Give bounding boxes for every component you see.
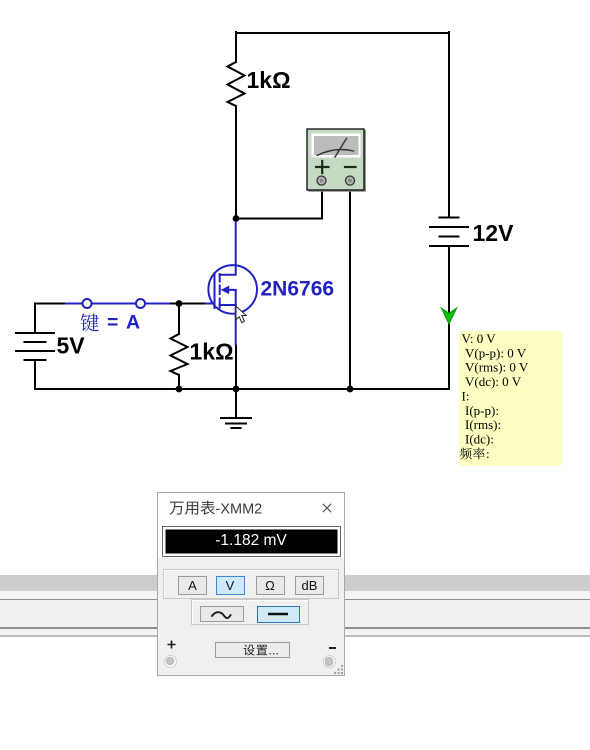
- svg-text:V(p-p): 0 V: V(p-p): 0 V: [465, 345, 527, 360]
- svg-text:V: 0 V: V: 0 V: [462, 331, 497, 346]
- − terminal label: [329, 647, 337, 649]
- svg-text::: :: [486, 446, 490, 461]
- close X: [322, 503, 332, 513]
- svg-text:5V: 5V: [57, 333, 86, 359]
- svg-text:-XMM2: -XMM2: [215, 502, 262, 518]
- resistor R2: [171, 334, 188, 375]
- probe tooltip: [459, 331, 562, 466]
- wire V1 + to switch: [35, 304, 66, 334]
- title bar: [158, 493, 344, 558]
- wire right rail: V2 bottom lead to bottom rail: [448, 246, 450, 389]
- node junction R2/bottom rail: [176, 386, 183, 393]
- svg-text:A: A: [126, 312, 140, 334]
- wire multimeter − terminal down to bottom rail: [349, 190, 351, 389]
- svg-text:12V: 12V: [473, 220, 515, 246]
- + terminal label: [167, 640, 176, 649]
- battery V1 5V: [16, 333, 54, 360]
- wire R2 bottom lead: [178, 375, 180, 389]
- wire switch to gate node to MOSFET gate pin: [171, 303, 206, 305]
- MOSFET Q1 2N6766 (selected blue): [206, 222, 257, 345]
- mode buttons groove: [163, 569, 339, 599]
- wire right rail: V2 top lead: [448, 32, 450, 218]
- wire drain rail upper (R1 leads): [235, 32, 237, 220]
- svg-text:2N6766: 2N6766: [261, 278, 335, 301]
- switch S1 (closed, blue selected): [66, 299, 171, 308]
- switch label 键 = A: [81, 312, 140, 334]
- wire source to bottom rail: [235, 345, 237, 389]
- resize grip: [333, 664, 344, 675]
- multimeter dialog window XMM2: [157, 492, 345, 676]
- wire bottom rail: [35, 388, 449, 390]
- wire top rail from R1 to V2: [236, 32, 449, 34]
- battery V2 12V: [430, 218, 468, 247]
- wire junction to multimeter + terminal: [236, 190, 322, 219]
- svg-text:V(dc): 0 V: V(dc): 0 V: [465, 374, 522, 389]
- svg-text:1kΩ: 1kΩ: [190, 339, 234, 365]
- svg-text:...: ...: [269, 644, 279, 658]
- label 2N6766 (Q1): [261, 278, 335, 301]
- multimeter XMM2 icon: [307, 129, 365, 191]
- value label 1kΩ (R1): [247, 67, 291, 93]
- mouse cursor: [236, 306, 246, 322]
- ground: [221, 389, 251, 428]
- black reading display: [162, 526, 341, 557]
- background window bands: [0, 575, 590, 592]
- svg-text:=: =: [107, 312, 118, 334]
- wire V1 − to bottom rail: [34, 360, 36, 389]
- svg-text:I(p-p):: I(p-p):: [465, 403, 499, 418]
- svg-text:1kΩ: 1kΩ: [247, 67, 291, 93]
- node junction source/ground: [233, 386, 240, 393]
- node junction meter− / bottom rail: [347, 386, 354, 393]
- value label 5V (V1): [57, 333, 86, 359]
- value label 12V (V2): [473, 220, 515, 246]
- node junction drain/meter+: [233, 215, 240, 222]
- node junction gate: [176, 300, 183, 307]
- svg-text:V(rms): 0 V: V(rms): 0 V: [465, 360, 529, 375]
- svg-text:I(rms):: I(rms):: [465, 417, 501, 432]
- resistor R1: [228, 62, 245, 106]
- settings button 设置...: [215, 642, 290, 658]
- schematic svg: [0, 0, 590, 490]
- ac/dc groove: [191, 599, 309, 625]
- probe arrow (green) on right rail: [442, 309, 456, 324]
- wire R2 top lead: [178, 304, 180, 335]
- svg-text:I(dc):: I(dc):: [465, 432, 494, 447]
- value label 1kΩ (R2): [190, 339, 234, 365]
- terminal circles: [164, 655, 177, 668]
- svg-text:I:: I:: [462, 388, 470, 403]
